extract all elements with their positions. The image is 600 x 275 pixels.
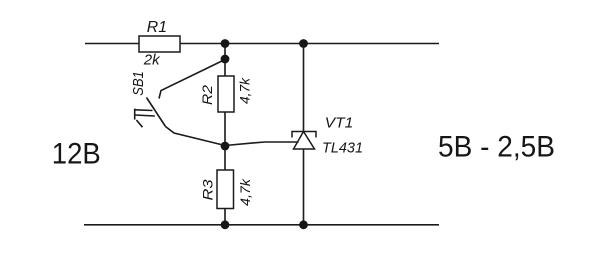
svg-text:2k: 2k	[143, 52, 161, 69]
node junction dot middle (divider tap)	[221, 142, 230, 151]
switch SB1 moving contact	[147, 98, 166, 127]
node junction dot top-right	[299, 39, 308, 48]
wire switch upper (tap dot to fixed contact)	[159, 60, 225, 99]
wire R3 to bottom rail	[224, 209, 226, 225]
switch SB1 plunger crossbar	[134, 109, 136, 120]
wire switch lower (moving contact to middle node)	[166, 127, 226, 146]
switch SB1 lower contact tick	[136, 120, 142, 127]
wire branch2 bottom (VT1 anode to rail)	[303, 149, 305, 225]
wire reference (middle node to VT1 ref)	[225, 142, 299, 146]
svg-text:R3: R3	[199, 179, 215, 200]
resistor R2	[218, 76, 234, 112]
svg-text:R2: R2	[199, 85, 215, 105]
svg-text:4,7k: 4,7k	[236, 77, 252, 104]
node junction dot top-left	[221, 39, 230, 48]
svg-text:VT1: VT1	[325, 114, 354, 131]
wire R2 to middle node to R3	[224, 112, 226, 170]
svg-text:SB1: SB1	[131, 71, 147, 96]
svg-text:R1: R1	[147, 19, 167, 36]
switch SB1 plunger bar upper	[135, 109, 153, 112]
svg-text:TL431: TL431	[322, 139, 363, 156]
node junction dot bottom-left	[221, 220, 230, 229]
transistor VT1 TL431 cathode bar	[292, 132, 316, 138]
resistor R3	[217, 170, 234, 209]
svg-text:4,7k: 4,7k	[237, 178, 253, 206]
svg-text:5В - 2,5В: 5В - 2,5В	[438, 131, 555, 164]
wire branch1 vertical (top node to R2)	[224, 44, 226, 77]
node junction dot bottom-right	[299, 220, 308, 229]
wire branch2 top (rail to VT1 cathode)	[303, 44, 305, 132]
switch SB1 plunger bar lower	[135, 115, 155, 116]
transistor VT1 TL431 triangle	[294, 132, 315, 150]
svg-text:12В: 12В	[52, 138, 101, 171]
node junction dot switch tap	[221, 55, 230, 64]
wire top rail	[85, 43, 439, 45]
wire bottom rail	[84, 224, 439, 226]
resistor R1	[139, 36, 180, 52]
